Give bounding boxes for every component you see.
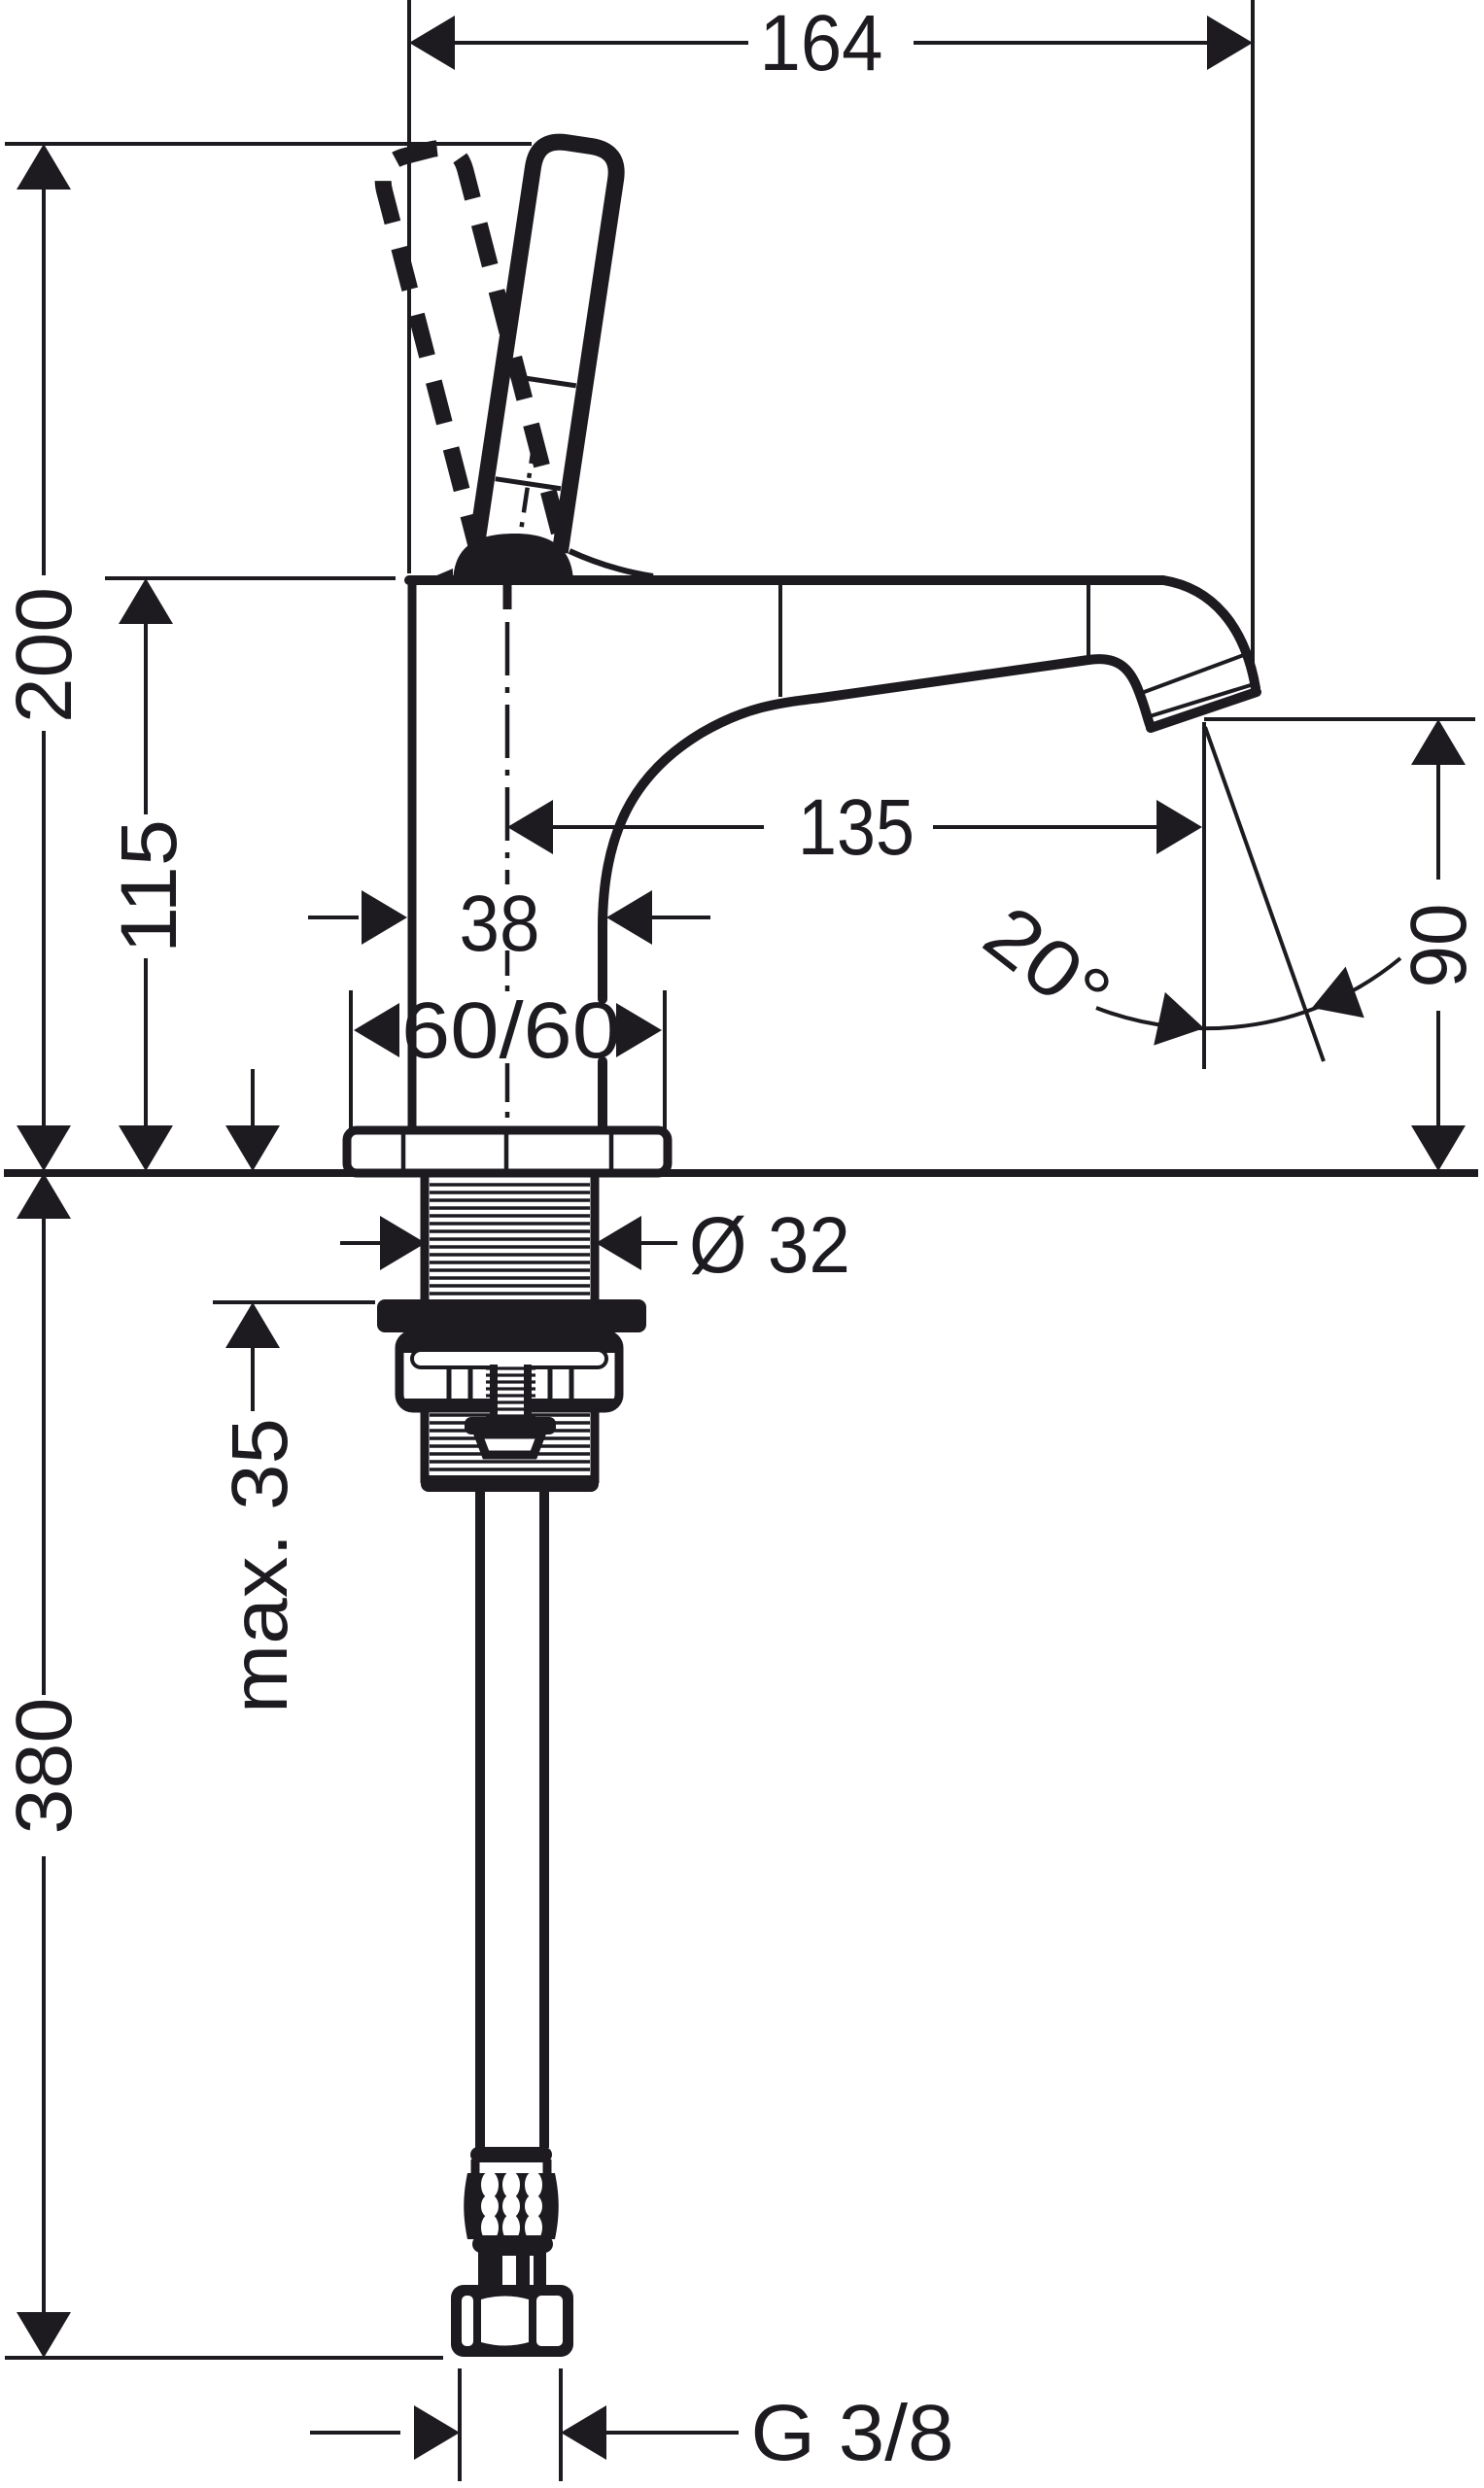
- dimension 20 degree slant line: [1205, 727, 1324, 1061]
- baseplate escutcheon: [347, 1130, 668, 1173]
- G3/8 hex nut: [451, 2285, 573, 2357]
- dimension 135 extension line (spout outlet vertical): [1202, 722, 1206, 1069]
- dimension G3/8 extension line right: [559, 2368, 563, 2481]
- handle lever (solid, closed position): [473, 138, 620, 577]
- svg-text:135: 135: [798, 783, 915, 872]
- dimension 20 degree label: [968, 889, 1126, 1040]
- faucet body right edge and spout underside: [603, 659, 1151, 1130]
- dimension 20 degree arc: [1096, 958, 1400, 1054]
- dimension 115: [105, 578, 193, 1171]
- svg-text:38: 38: [460, 880, 540, 968]
- dimension max 35: [216, 1302, 304, 1713]
- spout vertical joint line 2: [1087, 585, 1090, 662]
- dimension max 35 extension line: [213, 1300, 375, 1304]
- hose connector neck: [478, 2251, 546, 2288]
- dimension 135: [507, 783, 1202, 872]
- svg-text:60/60: 60/60: [401, 986, 621, 1075]
- dimension G3/8: [310, 2389, 954, 2477]
- fixing stud: [486, 1363, 535, 1421]
- hose crimp side walls: [475, 2160, 547, 2175]
- countertop deck line: [4, 1169, 1478, 1177]
- dimension 20 degree outlet level line: [1204, 717, 1475, 721]
- dimension 164: [409, 0, 1253, 87]
- supply hose left line: [475, 1491, 485, 2148]
- spout vertical joint line 1: [778, 585, 782, 697]
- faucet body left edge: [408, 580, 417, 1130]
- dimension 200 extension line top: [5, 142, 532, 146]
- dimension diameter 32: [340, 1201, 850, 1290]
- svg-text:G 3/8: G 3/8: [751, 2389, 954, 2477]
- mounting nut: [399, 1334, 619, 1408]
- dimension 200: [0, 144, 88, 1171]
- dimension G3/8 extension line left: [458, 2368, 462, 2481]
- svg-text:164: 164: [760, 0, 883, 87]
- dimension 380 extension line bottom: [5, 2356, 443, 2360]
- hose crimp collar: [470, 2147, 552, 2162]
- dimension 115 extension line top: [105, 576, 396, 580]
- dimension 38: [308, 880, 710, 968]
- handle lever (dashed, open position): [377, 142, 560, 556]
- dimension 380: [0, 1173, 88, 2358]
- svg-text:max. 35: max. 35: [216, 1418, 304, 1713]
- svg-text:200: 200: [0, 587, 88, 723]
- threaded shank: [425, 1177, 595, 1303]
- svg-text:90: 90: [1395, 904, 1483, 988]
- hose braid ferrule: [464, 2171, 559, 2241]
- lower threaded section: [421, 1411, 599, 1492]
- supply hose right line: [539, 1491, 549, 2148]
- svg-text:115: 115: [105, 819, 193, 953]
- dimension 60/60 extension line right: [663, 990, 667, 1130]
- stud foot clamp: [465, 1417, 556, 1455]
- dimension 164 extension line left: [407, 0, 411, 573]
- dimension max 35 upper arrow: [225, 1069, 280, 1171]
- hose ferrule ring: [472, 2235, 553, 2253]
- spout mouth aerator thin lines: [1139, 653, 1254, 717]
- dimension 60/60: [354, 986, 662, 1075]
- faucet body top and spout top outline: [409, 580, 1256, 688]
- handle pivot base: [421, 534, 653, 582]
- seal washer: [377, 1299, 646, 1332]
- svg-text:380: 380: [0, 1698, 88, 1835]
- svg-text:Ø 32: Ø 32: [689, 1201, 850, 1290]
- dimension 60/60 extension line left: [349, 990, 353, 1130]
- dimension 90: [1395, 719, 1483, 1171]
- dimension 164 extension line right: [1251, 0, 1255, 671]
- spout mouth bottom edge: [1151, 692, 1257, 728]
- faucet centerline (dash-dot): [503, 585, 512, 1130]
